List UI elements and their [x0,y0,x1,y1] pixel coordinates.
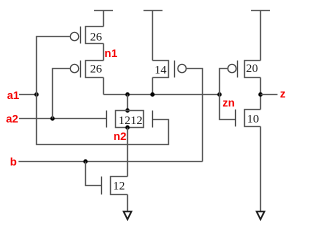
pmos M3 body (w=14, gate b) [153,61,169,78]
wire M3 source down to net zn [152,78,154,95]
pmos M1 gate bar [80,27,82,44]
wire M6 gate from zn [220,69,228,95]
nmos M7 gate bar [235,110,237,127]
svg-text:a2: a2 [6,114,18,126]
pmos M2 gate bar [80,61,82,78]
nmos M7 body (w=10, inverter pull-down) [245,110,261,127]
power VDD3 (supply for inverter pmos) [251,11,270,61]
svg-text:26: 26 [90,62,102,76]
wire M2 source down to net zn [103,78,105,95]
svg-text:z: z [280,89,286,101]
wire a2 horizontal to pair left gate [19,118,107,120]
svg-text:a1: a1 [7,90,19,102]
power VDD2 (supply for pmos M3) [144,11,163,61]
wire node n2 down to M5 drain [127,128,129,177]
wire z stub [261,94,278,96]
net zn horizontal rail [104,94,220,96]
svg-text:20: 20 [246,61,258,75]
svg-text:n2: n2 [114,131,127,143]
nmos M5 gate bar [101,177,103,195]
wire zn down to M7 gate [220,95,236,120]
wire M5 source to ground [127,195,129,212]
wire M3 gate over to net b [186,69,202,162]
wire b horizontal rail [19,161,203,163]
pmos M3 gate bar [174,61,176,78]
wire node n1 (M1 source to M2 drain) [103,44,105,61]
nmos pair M4a/M4b box (w=12 each, parallel) [116,111,144,128]
wire M7 source to ground [260,127,262,212]
svg-text:14: 14 [155,63,167,77]
junction dot b [83,159,87,163]
svg-text:12: 12 [113,179,125,193]
svg-text:n1: n1 [105,48,118,60]
junction dot zn at inverter gates [217,92,221,96]
junction dot node n2 [125,125,129,129]
junction dot pair drain [125,108,129,112]
nmos pair left gate bar [106,111,108,128]
wire z node vertical (M6 source to M7 drain) [260,95,262,110]
svg-text:1212: 1212 [119,113,143,127]
pmos M6 gate bubble [228,64,236,72]
wire a1 stub [19,94,37,96]
svg-text:zn: zn [223,98,236,110]
ground GND1 [124,212,132,220]
junction dot a1 [34,92,38,96]
wire M6 source down to z [260,78,262,95]
pmos M2 body (w=26, bottom of stack) [86,61,104,78]
svg-text:26: 26 [90,30,102,44]
junction dot a2 [50,116,54,120]
wire b drop to M5 gate [86,162,102,186]
pmos M6 body (w=20, inverter pull-up) [245,61,261,78]
wire a1 riser to M1 gate [37,37,71,95]
pmos M3 gate bubble [178,64,186,72]
ground GND2 [257,212,265,220]
nmos pair right gate bar [152,111,154,128]
junction dot zn at pair drain [125,92,129,96]
pmos M6 gate bar [237,61,239,78]
svg-text:10: 10 [247,112,259,126]
nmos M5 body (w=12, gate b) [111,177,128,195]
pmos M1 gate bubble [70,32,78,40]
pmos M2 gate bubble [70,64,78,72]
wire a1 drop around to pair right gate [37,95,169,145]
svg-text:b: b [10,157,17,169]
power VDD1 (supply bar over series pmos stack) [94,11,113,27]
junction dot z [258,92,262,96]
wire pair drain from zn [127,95,129,111]
junction dot zn at M3 source [150,92,154,96]
wire a2 riser to M2 gate [53,69,71,119]
pmos M1 body (w=26, top of stack) [86,27,104,44]
